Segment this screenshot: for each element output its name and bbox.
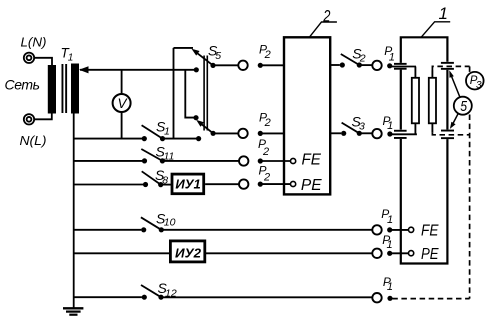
wire plug row3 to FE terminal of box 2 [260, 160, 290, 162]
svg-text:ИУ2: ИУ2 [175, 246, 202, 261]
label T1 [61, 46, 74, 64]
wire S8 to ИУ1 [161, 184, 171, 186]
dashed wire plug bottom to dashed vertical [392, 298, 469, 300]
socket row3 [239, 156, 248, 165]
label P1 row1 [384, 44, 395, 64]
node S5 lower inner throw [193, 115, 198, 120]
wire box 2 to S3 [330, 132, 341, 134]
svg-text:3: 3 [359, 120, 365, 132]
wire ИУ2 to socket PE [206, 252, 373, 254]
wire bus to S11 [74, 160, 143, 162]
plug P1 bottom row [387, 296, 392, 301]
box 2 [284, 37, 330, 194]
label S2 [352, 46, 366, 65]
label S8 [155, 167, 168, 186]
svg-text:1: 1 [387, 214, 393, 226]
leader line box 1 [421, 22, 450, 38]
transformer T1 primary winding [48, 65, 56, 114]
node wiper contact [194, 67, 199, 72]
wire bus to S8 [74, 184, 144, 186]
svg-text:FE: FE [302, 151, 322, 168]
svg-text:1: 1 [439, 4, 448, 23]
switch S12 [141, 285, 164, 300]
svg-text:PE: PE [301, 177, 322, 194]
label S12 [158, 280, 177, 299]
arrow 5 to upper capacitor [449, 70, 460, 97]
wire plug to PE terminal box 1 [390, 252, 409, 254]
socket P1 bottom row [372, 293, 381, 302]
wire S3 to socket P1 row2 [359, 132, 372, 134]
wire S12 to socket bottom [161, 296, 372, 298]
svg-text:FE: FE [421, 223, 439, 240]
wire S10 to socket FE [161, 229, 372, 231]
FE terminal box 2 [291, 158, 296, 163]
switch S10 [141, 217, 164, 232]
switch S5 upper pole blade with arrow [192, 49, 216, 68]
capacitor C row2 right plates [441, 130, 454, 139]
wire wiper branch down to S5 lower throw [185, 70, 194, 118]
svg-text:2: 2 [264, 49, 271, 61]
socket P1 row1 [372, 61, 381, 70]
svg-text:10: 10 [164, 217, 176, 229]
label S10 [156, 211, 176, 229]
leader line box 2 [309, 22, 337, 37]
socket P1 FE row [372, 225, 381, 234]
label P2 row3 [258, 137, 269, 158]
label S3 [352, 113, 366, 132]
wire box 2 to S2 [330, 64, 340, 66]
svg-text:2: 2 [264, 117, 271, 129]
switch S11 [141, 149, 165, 163]
transformer T1 core [62, 64, 68, 113]
svg-text:1: 1 [389, 52, 395, 64]
PE terminal box 1 [409, 251, 414, 256]
box 1 outline [401, 37, 448, 263]
wire plug row1 into box 2 [260, 64, 284, 66]
wire voltmeter bottom lead [121, 112, 123, 139]
wire N(L) to transformer primary bottom [35, 112, 52, 119]
svg-text:1: 1 [387, 239, 393, 251]
wire P1 row2 to resistor lead [390, 133, 417, 135]
dashed vertical right [469, 66, 471, 72]
svg-text:L(N): L(N) [21, 35, 47, 50]
wire S5 upper throw line [174, 47, 194, 49]
capacitor C row1 right plates [441, 62, 454, 70]
label P2 row2 [259, 110, 271, 129]
circle 5 [454, 97, 472, 115]
wiper arrowhead into T1 [79, 66, 89, 73]
wire vertical from top line to S1 row [173, 48, 175, 139]
S5 gang linkage [204, 56, 207, 131]
capacitor C row2 left plates [394, 130, 407, 139]
wire S11 to socket row3 [162, 160, 239, 162]
wire S5 upper pole to socket [213, 64, 238, 66]
label P1 FE row [381, 207, 393, 226]
label P1 PE row [382, 233, 392, 251]
wire P1 row1 to resistor lead [390, 66, 416, 68]
plug P2 row3 [258, 158, 263, 163]
svg-text:3: 3 [476, 80, 482, 91]
svg-text:5: 5 [215, 50, 221, 62]
transformer T1 secondary winding [71, 64, 79, 114]
svg-text:2: 2 [263, 171, 270, 183]
svg-text:2: 2 [262, 146, 269, 158]
wire bus to S1 [74, 138, 142, 140]
ground [63, 308, 83, 314]
label P2 row1 [259, 42, 271, 61]
svg-text:ИУ1: ИУ1 [175, 176, 200, 191]
wire plug to FE terminal box 1 [390, 229, 409, 231]
resistor left [412, 67, 419, 135]
wire S1 to node [163, 138, 199, 140]
dashed probe link bottom [432, 133, 469, 135]
wire S2 to socket P1 row1 [359, 64, 372, 66]
wire bus to ИУ2 [74, 252, 170, 254]
socket row2 [238, 129, 247, 138]
svg-text:2: 2 [323, 6, 331, 25]
arrow 5 to lower capacitor [450, 114, 458, 129]
label S5 [208, 42, 221, 61]
wire S5 lower pole to socket [213, 132, 238, 134]
socket P1 row2 [372, 129, 381, 138]
svg-text:Сеть: Сеть [5, 77, 41, 93]
socket row4 [239, 179, 248, 188]
wire plug row4 to PE terminal of box 2 [260, 183, 290, 185]
capacitor C row1 left plates [394, 63, 407, 70]
svg-text:N(L): N(L) [20, 133, 47, 148]
wire L(N) to transformer primary top [35, 58, 53, 66]
svg-text:5: 5 [460, 98, 467, 115]
terminal N(L) [24, 114, 34, 124]
terminal L(N) [24, 53, 34, 63]
plug P1 PE row [387, 251, 392, 256]
svg-text:2: 2 [359, 53, 366, 65]
socket row1 [238, 61, 247, 70]
switch S3 [341, 123, 362, 136]
label P1 bottom row [383, 275, 393, 293]
svg-text:1: 1 [164, 126, 170, 138]
wire ИУ1 to socket row4 [205, 183, 239, 185]
switch S2 [340, 54, 362, 68]
dashed probe link top [432, 66, 469, 70]
socket P1 PE row [372, 249, 381, 258]
circle P3 [466, 72, 484, 91]
resistor right [429, 70, 436, 133]
svg-text:PE: PE [421, 246, 439, 263]
switch S8 [142, 171, 164, 187]
plug P1 row2 [387, 131, 392, 136]
wire bus to S10 [74, 229, 142, 231]
label P1 row2 [383, 114, 394, 132]
label P2 row4 [259, 164, 271, 184]
svg-text:1: 1 [68, 53, 74, 64]
svg-text:1: 1 [387, 281, 393, 293]
svg-text:1: 1 [387, 120, 393, 132]
box ИУ1 [172, 174, 204, 194]
wire left bus from T1 secondary [73, 114, 75, 309]
label S1 [156, 119, 170, 138]
plug P2 row4 [258, 182, 263, 187]
box ИУ2 [170, 241, 204, 262]
plug P2 row1 [258, 63, 263, 68]
node end of S1 row (S5 lower throw) [196, 136, 201, 141]
FE terminal box 1 [409, 227, 414, 232]
switch S1 [142, 125, 165, 141]
wire plug row2 into box 2 [260, 132, 284, 134]
plug P1 row1 [387, 63, 392, 68]
wire voltmeter top lead [121, 70, 123, 95]
voltmeter V [113, 94, 131, 112]
switch S5 lower pole blade with arrow [196, 120, 216, 136]
wire wiper line from T1 to S5 contact [80, 69, 196, 71]
label S11 [156, 144, 175, 163]
wire bus to S12 [74, 296, 142, 298]
plug P2 row2 [258, 131, 263, 136]
PE terminal box 2 [291, 181, 296, 186]
plug P1 FE row [387, 227, 392, 232]
